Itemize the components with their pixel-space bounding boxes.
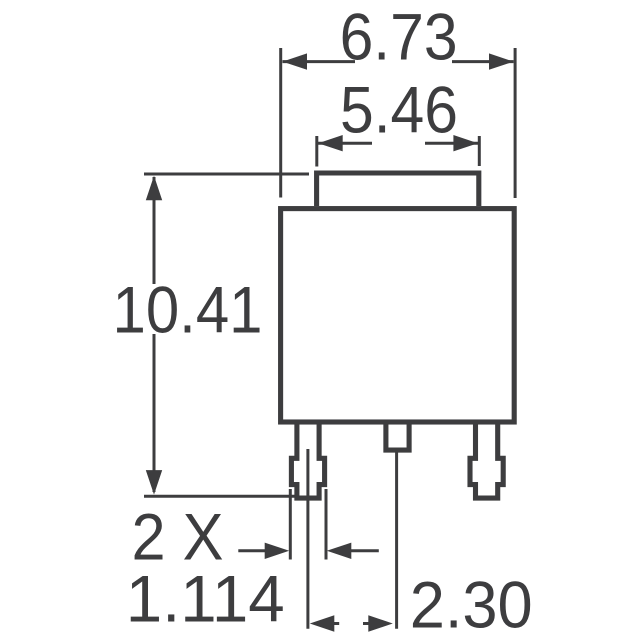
- svg-text:1.114: 1.114: [126, 562, 285, 635]
- svg-text:2.30: 2.30: [410, 568, 533, 640]
- svg-text:6.73: 6.73: [340, 0, 458, 73]
- svg-text:10.41: 10.41: [113, 273, 263, 346]
- svg-text:5.46: 5.46: [340, 73, 458, 146]
